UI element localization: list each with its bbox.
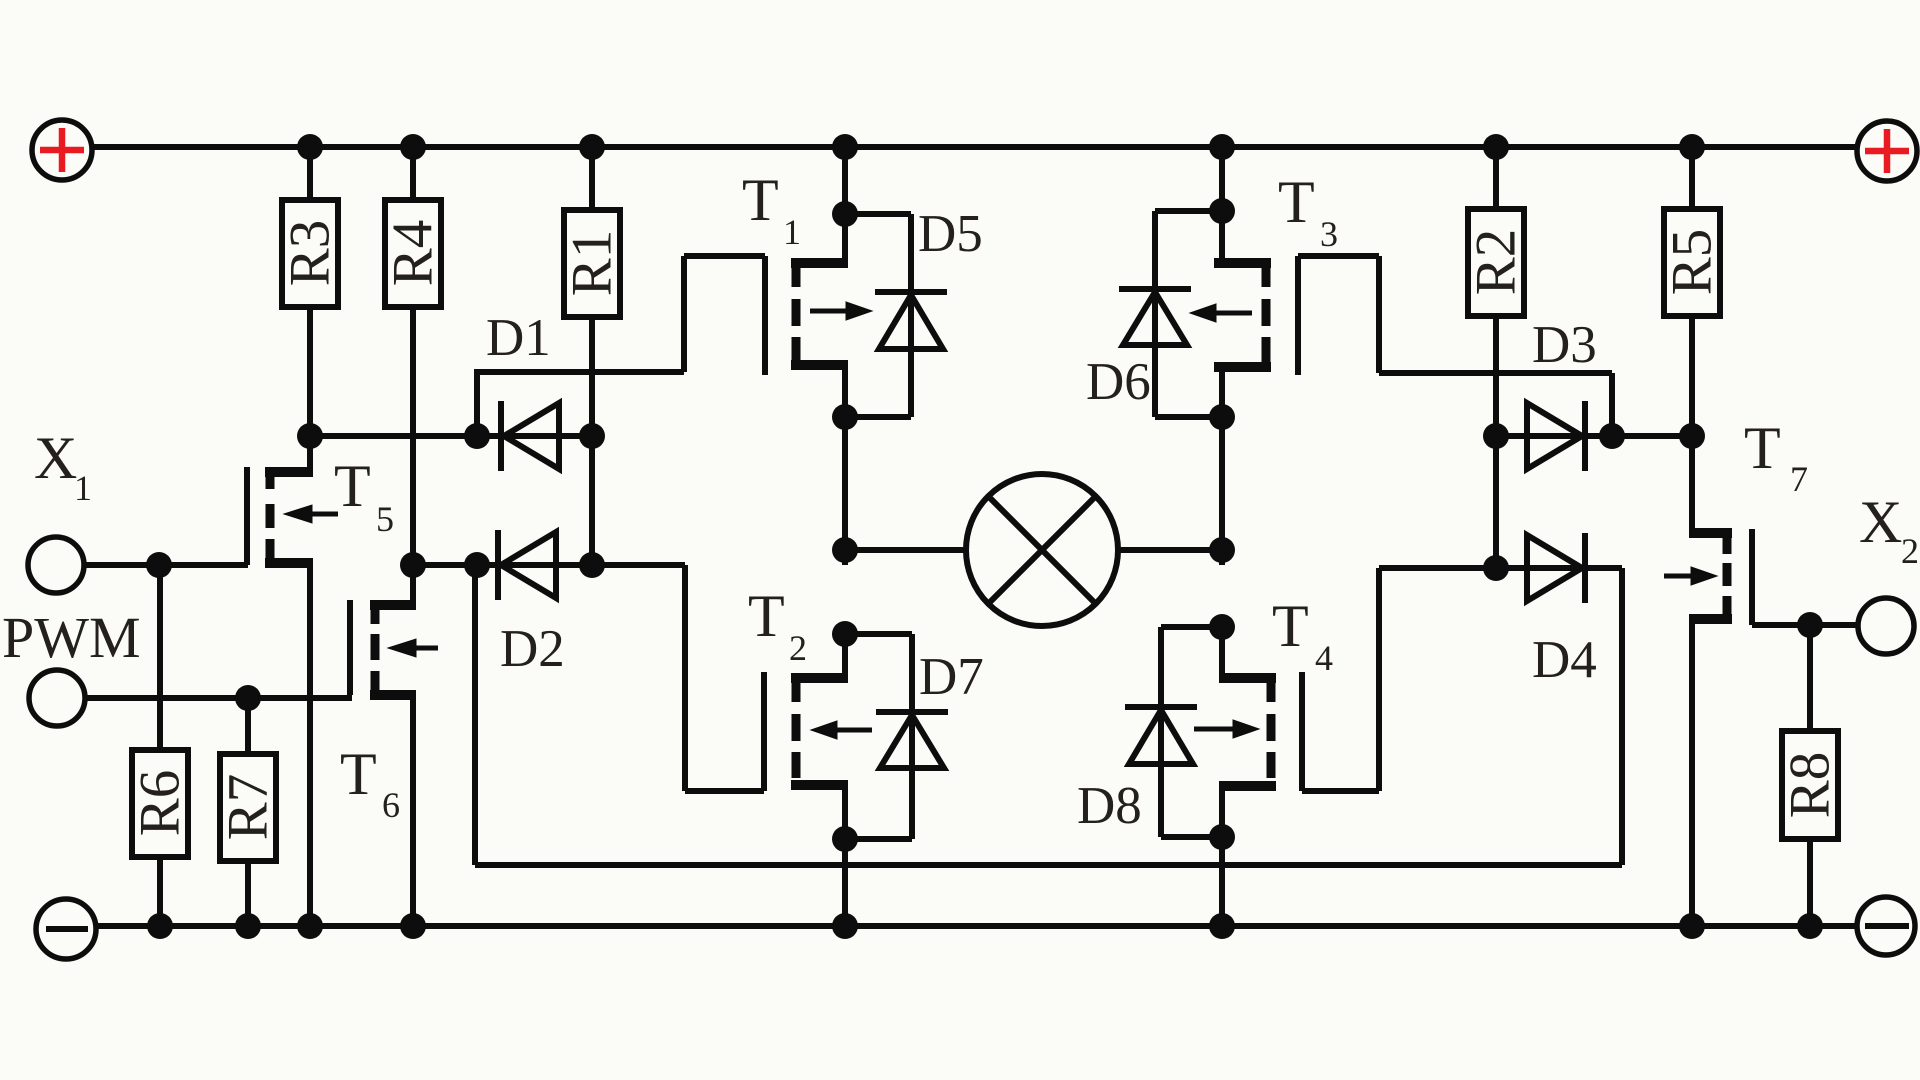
node T1 drain / D5 bbox=[832, 201, 858, 227]
label D3 bbox=[1532, 316, 1597, 374]
svg-text:R1: R1 bbox=[561, 230, 624, 297]
diode D6 triangle bbox=[1123, 292, 1187, 345]
diode D4 cathode bar bbox=[1582, 533, 1588, 603]
wire R1 to D2 segment bbox=[589, 436, 595, 565]
node top rail R5 bbox=[1679, 134, 1705, 160]
node D3 left / R2 bbox=[1483, 423, 1509, 449]
transistor T7 body arrow bbox=[1664, 567, 1717, 585]
transistor T2 body arrow bbox=[811, 721, 872, 739]
transistor T6 gate line bbox=[347, 600, 353, 695]
svg-text:2: 2 bbox=[789, 628, 807, 668]
diode D5 bottom wire bbox=[845, 414, 911, 420]
transistor T3 gate line bbox=[1295, 256, 1301, 375]
wire top rail to T1 drain bbox=[842, 147, 848, 268]
terminal + left (positive supply) bbox=[32, 120, 92, 180]
node T4 drain / D8 bbox=[1209, 614, 1235, 640]
diode D2 triangle bbox=[501, 532, 556, 598]
node lamp right bbox=[1209, 537, 1235, 563]
diode D1 wire bbox=[477, 433, 592, 439]
transistor T6 drain contact bbox=[370, 565, 416, 610]
diode D4 wire bbox=[1496, 565, 1622, 571]
resistor R6 bbox=[129, 565, 192, 926]
node T3 source / D6 bbox=[1209, 404, 1235, 430]
terminal - left (negative supply) bbox=[36, 899, 96, 959]
diode D5 vertical bbox=[908, 214, 914, 417]
node T6 drain / R4 / D2 bbox=[400, 552, 426, 578]
diode D5 cathode bar bbox=[875, 289, 947, 295]
diode D5 top wire bbox=[845, 211, 911, 217]
transistor T5 channel bbox=[266, 468, 275, 561]
transistor T3 body arrow bbox=[1190, 304, 1252, 322]
svg-text:R6: R6 bbox=[129, 770, 192, 837]
transistor T7 drain contact bbox=[1689, 528, 1732, 538]
terminal - right (negative supply) bbox=[1857, 897, 1915, 955]
node A dot R3-T5 bbox=[297, 423, 323, 449]
node X1-R6 junction bbox=[146, 552, 172, 578]
svg-text:R8: R8 bbox=[1779, 752, 1842, 819]
transistor T3 drain contact bbox=[1214, 258, 1271, 268]
diode D3 triangle bbox=[1527, 403, 1582, 469]
diode D8 vertical bbox=[1158, 627, 1164, 837]
svg-text:T: T bbox=[334, 453, 371, 519]
svg-text:T: T bbox=[1272, 593, 1309, 659]
svg-text:1: 1 bbox=[74, 468, 92, 508]
label PWM bbox=[2, 605, 141, 670]
svg-text:X: X bbox=[34, 425, 77, 491]
node T4 source / D8 bbox=[1209, 824, 1235, 850]
svg-text:2: 2 bbox=[1901, 531, 1919, 571]
node T2 source / D7 bbox=[832, 826, 858, 852]
diode D3 wire bbox=[1496, 433, 1612, 439]
diode D2 wire bbox=[477, 562, 592, 568]
diode D7 bottom wire bbox=[845, 836, 912, 842]
wire X1 to T5 gate bbox=[84, 562, 248, 568]
wire T1 gate path bbox=[474, 256, 765, 436]
diode D3 cathode bar bbox=[1582, 401, 1588, 471]
svg-text:R7: R7 bbox=[217, 774, 280, 841]
terminal PWM bbox=[29, 670, 85, 726]
node top rail R3 bbox=[297, 134, 323, 160]
svg-text:6: 6 bbox=[382, 785, 400, 825]
label T7 bbox=[1744, 415, 1808, 499]
transistor T7 channel bbox=[1723, 535, 1732, 617]
svg-text:T: T bbox=[340, 741, 377, 807]
node bottom rail R7 bbox=[235, 913, 261, 939]
label T5 bbox=[334, 453, 394, 539]
transistor T4 channel bbox=[1267, 680, 1276, 778]
wire cross coupling D4 side bbox=[1619, 568, 1625, 865]
wire R5 node to T7 drain bbox=[1689, 436, 1695, 538]
svg-text:D6: D6 bbox=[1086, 353, 1151, 411]
transistor T2 channel bbox=[792, 680, 801, 778]
diode D7 top wire bbox=[845, 631, 912, 637]
svg-text:PWM: PWM bbox=[2, 605, 141, 670]
svg-text:D4: D4 bbox=[1532, 631, 1597, 689]
wire T3 gate path bbox=[1298, 256, 1612, 436]
wire T2 gate path bbox=[592, 565, 764, 791]
diode D5 triangle bbox=[879, 295, 943, 349]
svg-text:1: 1 bbox=[783, 212, 801, 252]
diode D7 vertical bbox=[909, 634, 915, 839]
node D1 right / R1 bbox=[579, 423, 605, 449]
transistor T2 source contact bbox=[791, 785, 848, 926]
wire top positive rail bbox=[91, 144, 1858, 150]
node bottom rail T4 source bbox=[1209, 913, 1235, 939]
transistor T1 body arrow bbox=[810, 302, 872, 320]
diode D7 cathode bar bbox=[876, 709, 948, 715]
node bottom rail R6 bbox=[147, 913, 173, 939]
svg-text:T: T bbox=[748, 583, 785, 649]
transistor T1 channel bbox=[792, 265, 801, 363]
terminal X2 bbox=[1858, 598, 1914, 654]
resistor R1 bbox=[561, 147, 624, 565]
wire bottom negative rail bbox=[95, 923, 1858, 929]
label T4 bbox=[1272, 593, 1333, 678]
label X2 bbox=[1859, 489, 1919, 571]
svg-text:7: 7 bbox=[1790, 459, 1808, 499]
transistor T5 gate line bbox=[244, 467, 250, 565]
diode D4 triangle bbox=[1527, 535, 1582, 601]
diode D8 cathode bar bbox=[1125, 704, 1197, 710]
transistor T5 drain contact bbox=[265, 436, 313, 477]
transistor T4 source contact bbox=[1219, 786, 1276, 926]
node top rail R4 bbox=[400, 134, 426, 160]
resistor R2 bbox=[1465, 147, 1528, 568]
node A dot at D1 left bbox=[464, 423, 490, 449]
svg-text:T: T bbox=[1744, 415, 1781, 481]
lamp M1 bbox=[966, 474, 1118, 626]
transistor T6 source contact bbox=[370, 695, 416, 926]
svg-text:D2: D2 bbox=[500, 620, 565, 678]
svg-text:R3: R3 bbox=[279, 220, 342, 287]
node D4 left / R2 bbox=[1483, 555, 1509, 581]
node top rail R1 bbox=[579, 134, 605, 160]
wire lamp left bbox=[845, 547, 966, 553]
wire top rail to T3 drain bbox=[1219, 147, 1225, 268]
label T1 bbox=[742, 167, 801, 252]
wire node A: R3/T5 drain to D1 bbox=[310, 433, 478, 439]
diode D8 bottom wire bbox=[1161, 834, 1222, 840]
diode D6 vertical bbox=[1152, 211, 1158, 417]
node R5 bottom / T7 drain bbox=[1679, 423, 1705, 449]
svg-text:D7: D7 bbox=[919, 648, 984, 706]
resistor R4 bbox=[382, 147, 445, 565]
transistor T2 drain contact bbox=[791, 673, 848, 683]
node top rail R2 bbox=[1483, 134, 1509, 160]
diode D1 triangle bbox=[504, 403, 559, 469]
resistor R7 bbox=[217, 698, 280, 926]
terminal X1 bbox=[28, 537, 84, 593]
svg-text:D3: D3 bbox=[1532, 316, 1597, 374]
wire D3 to R5 bbox=[1612, 433, 1692, 439]
diode D1 cathode bar bbox=[498, 401, 504, 471]
wire cross coupling D2 side bbox=[472, 565, 478, 865]
diode D6 top wire bbox=[1155, 208, 1222, 214]
transistor T3 channel bbox=[1262, 265, 1271, 363]
transistor T6 body arrow bbox=[388, 639, 438, 657]
label X1 bbox=[34, 425, 92, 508]
wire lamp right bbox=[1118, 547, 1222, 553]
svg-text:T: T bbox=[1278, 169, 1315, 235]
transistor T2 gate line bbox=[761, 672, 767, 791]
transistor T7 gate line bbox=[1749, 529, 1755, 625]
transistor T1 gate line bbox=[762, 256, 768, 375]
label D5 bbox=[918, 205, 983, 263]
svg-text:X: X bbox=[1859, 489, 1902, 555]
terminal + right (positive supply) bbox=[1857, 121, 1917, 181]
transistor T4 drain contact bbox=[1219, 673, 1276, 683]
label D7 bbox=[919, 648, 984, 706]
node D3 right / T3 gate bbox=[1599, 423, 1625, 449]
resistor R3 bbox=[279, 147, 342, 436]
svg-text:D8: D8 bbox=[1077, 777, 1142, 835]
diode D8 top wire bbox=[1161, 624, 1222, 630]
node T3 drain / D6 bbox=[1209, 198, 1235, 224]
node PWM-R7 junction bbox=[235, 685, 261, 711]
wire T4 drain leg bbox=[1219, 627, 1225, 683]
svg-text:D1: D1 bbox=[486, 309, 551, 367]
diode D6 bottom wire bbox=[1155, 414, 1222, 420]
node lamp left bbox=[832, 537, 858, 563]
node top rail T3 branch bbox=[1209, 134, 1235, 160]
svg-text:3: 3 bbox=[1320, 214, 1338, 254]
resistor R5 bbox=[1661, 147, 1724, 436]
label T3 bbox=[1278, 169, 1338, 254]
transistor T5 source contact bbox=[265, 563, 313, 926]
wire T4 gate path bbox=[1302, 568, 1496, 791]
resistor R8 bbox=[1779, 625, 1842, 926]
label D4 bbox=[1532, 631, 1597, 689]
transistor T6 channel bbox=[371, 601, 380, 693]
node bottom rail T7 source bbox=[1679, 913, 1705, 939]
transistor T1 drain contact bbox=[791, 258, 848, 268]
transistor T4 gate line bbox=[1299, 672, 1305, 791]
svg-text:T: T bbox=[742, 167, 779, 233]
svg-text:R5: R5 bbox=[1661, 229, 1724, 296]
transistor T7 source contact bbox=[1689, 619, 1732, 926]
wire cross coupling bottom bbox=[475, 862, 1622, 868]
diode D7 triangle bbox=[880, 715, 944, 768]
node X2 / R8 bbox=[1797, 612, 1823, 638]
diode D8 triangle bbox=[1129, 710, 1193, 764]
label T6 bbox=[340, 741, 400, 825]
transistor T5 body arrow bbox=[284, 505, 338, 523]
diode D6 cathode bar bbox=[1119, 286, 1191, 292]
node D2 right bbox=[579, 552, 605, 578]
label D1 bbox=[486, 309, 551, 367]
transistor T3 source contact bbox=[1214, 367, 1271, 565]
svg-text:D5: D5 bbox=[918, 205, 983, 263]
svg-text:R2: R2 bbox=[1465, 229, 1528, 296]
node T2 drain / D7 bbox=[832, 621, 858, 647]
svg-text:R4: R4 bbox=[382, 220, 445, 287]
transistor T1 source contact bbox=[791, 365, 848, 565]
wire T7 gate to X2 bbox=[1752, 622, 1858, 628]
node top rail T1 branch bbox=[832, 134, 858, 160]
node T1 source / D5 bbox=[832, 404, 858, 430]
node bottom rail R8 bbox=[1797, 913, 1823, 939]
node D2 left bbox=[464, 552, 490, 578]
wire PWM to T6 gate bbox=[85, 695, 352, 701]
diode D2 cathode bar bbox=[495, 530, 501, 600]
label D2 bbox=[500, 620, 565, 678]
svg-text:4: 4 bbox=[1315, 638, 1333, 678]
svg-text:5: 5 bbox=[376, 499, 394, 539]
node bottom rail T5 source bbox=[297, 913, 323, 939]
label D8 bbox=[1077, 777, 1142, 835]
node bottom rail T2 source bbox=[832, 913, 858, 939]
node bottom rail T6 source bbox=[400, 913, 426, 939]
transistor T4 body arrow bbox=[1194, 720, 1259, 738]
label D6 bbox=[1086, 353, 1151, 411]
label T2 bbox=[748, 583, 807, 668]
wire T2 drain leg bbox=[842, 634, 848, 683]
wire T6 drain to D2 bbox=[413, 562, 477, 568]
